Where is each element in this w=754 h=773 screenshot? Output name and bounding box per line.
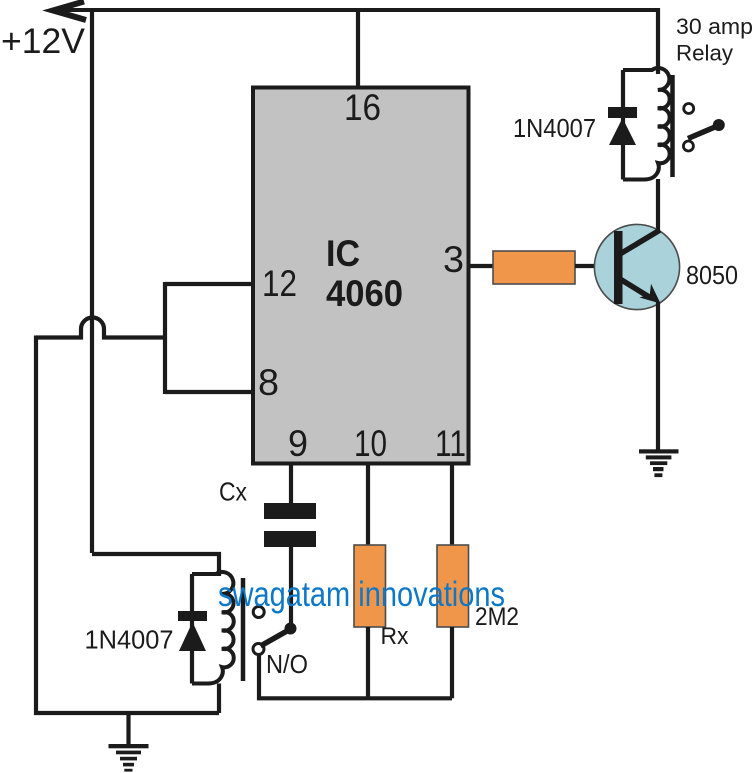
svg-text:IC: IC bbox=[326, 233, 360, 274]
wire: base resistor to Q1 bbox=[575, 264, 597, 268]
transistor Q1 collector line bbox=[620, 230, 660, 254]
+12V rail arrowhead bbox=[53, 2, 86, 21]
svg-text:9: 9 bbox=[288, 423, 308, 464]
relay RL1 contact lever bbox=[261, 629, 291, 646]
wire: relay RL2 to Q1 collector bbox=[656, 179, 660, 234]
relay RL1 contact fixed point (upper) bbox=[253, 607, 264, 618]
wire: supply rail to relay RL2 bbox=[656, 8, 660, 74]
wire: pin 9 to capacitor Cx bbox=[289, 463, 293, 503]
svg-text:16: 16 bbox=[344, 87, 381, 128]
diode D1 1N4007 cathode bar bbox=[608, 107, 637, 118]
wire: relay RL1 bottom return bbox=[217, 684, 221, 714]
IC U1 4060 body bbox=[253, 88, 469, 464]
IC U1 name label bbox=[326, 233, 403, 314]
wire: Q1 emitter to ground bbox=[656, 302, 660, 450]
ground GND1 symbol bbox=[109, 744, 149, 772]
svg-text:+12V: +12V bbox=[1, 22, 86, 61]
svg-text:swagatam innovations: swagatam innovations bbox=[218, 575, 505, 614]
svg-text:3: 3 bbox=[443, 239, 464, 280]
svg-text:1N4007: 1N4007 bbox=[85, 625, 174, 655]
wire: supply rail to IC pin 16 bbox=[356, 10, 360, 88]
transistor Q1 base bar bbox=[614, 231, 623, 304]
wire: resistor 2M2 to bottom run bbox=[450, 627, 454, 698]
svg-text:12: 12 bbox=[262, 263, 297, 304]
svg-text:Rx: Rx bbox=[381, 623, 409, 650]
relay RL1 coil bbox=[192, 572, 234, 683]
relay RL1 contact N/O point bbox=[253, 644, 264, 655]
resistor R2 2M2 bbox=[437, 545, 469, 627]
svg-text:Cx: Cx bbox=[219, 477, 247, 507]
relay RL2 contact fixed point (upper) bbox=[684, 104, 694, 114]
relay RL2 contact lever bbox=[688, 126, 719, 139]
svg-text:8: 8 bbox=[258, 362, 279, 403]
wire: capacitor Cx to contact pole bbox=[289, 547, 293, 626]
wire: resistor Rx to bottom run bbox=[366, 627, 370, 698]
diode D1 1N4007 triangle bbox=[609, 118, 636, 145]
wire: pin12 to pin8 link bbox=[163, 282, 167, 394]
wire: +12V rail down to left branch bbox=[90, 10, 94, 553]
wire: pin 3 stub to base resistor bbox=[469, 264, 493, 268]
svg-text:4060: 4060 bbox=[326, 273, 403, 314]
resistor R1 (base) bbox=[493, 251, 575, 284]
relay RL1 contact pole dot bbox=[285, 623, 297, 635]
wire: pin 10 to resistor Rx bbox=[366, 463, 370, 545]
svg-text:11: 11 bbox=[435, 423, 466, 464]
svg-text:Relay: Relay bbox=[676, 41, 734, 66]
svg-text:N/O: N/O bbox=[266, 649, 308, 679]
wire: top +12V rail bbox=[52, 8, 658, 12]
transistor Q1 emitter line bbox=[620, 279, 650, 298]
diode D2 branch wire bbox=[190, 574, 194, 684]
relay RL2 coil bbox=[623, 68, 670, 179]
wire: feedback run with hop over +12V rail bbox=[36, 318, 165, 338]
diode D2 1N4007 cathode bar bbox=[178, 611, 207, 621]
resistor Rx bbox=[354, 545, 386, 627]
diode D1 branch wire bbox=[621, 70, 625, 180]
relay RL2 contact pole dot bbox=[713, 119, 725, 131]
capacitor Cx bottom plate bbox=[264, 531, 316, 547]
diode D2 1N4007 triangle bbox=[179, 622, 206, 651]
svg-text:30 amp: 30 amp bbox=[676, 14, 753, 39]
transistor Q1 body bbox=[594, 224, 679, 309]
wire: pin 12 stub bbox=[165, 282, 253, 286]
relay RL2 core bar bbox=[670, 75, 675, 177]
wire: pin 8 stub bbox=[165, 390, 253, 394]
capacitor Cx top plate bbox=[264, 503, 316, 519]
transistor Q1 emitter arrowhead bbox=[639, 284, 660, 304]
relay RL2 contact N/O point bbox=[683, 141, 693, 151]
wire: N/O contact down to bottom run bbox=[259, 655, 452, 698]
svg-text:1N4007: 1N4007 bbox=[513, 113, 596, 143]
svg-text:8050: 8050 bbox=[686, 260, 738, 290]
wire: pin 11 to resistor 2M2 bbox=[450, 463, 454, 545]
ground GND1 stub bbox=[126, 713, 130, 745]
relay RL1 core bar bbox=[241, 578, 246, 681]
ground GND2 symbol bbox=[639, 449, 679, 477]
svg-text:10: 10 bbox=[354, 423, 387, 464]
wire: left rail down and bottom run bbox=[36, 336, 219, 714]
wire: +12V branch to relay RL1 coil bbox=[92, 554, 219, 576]
